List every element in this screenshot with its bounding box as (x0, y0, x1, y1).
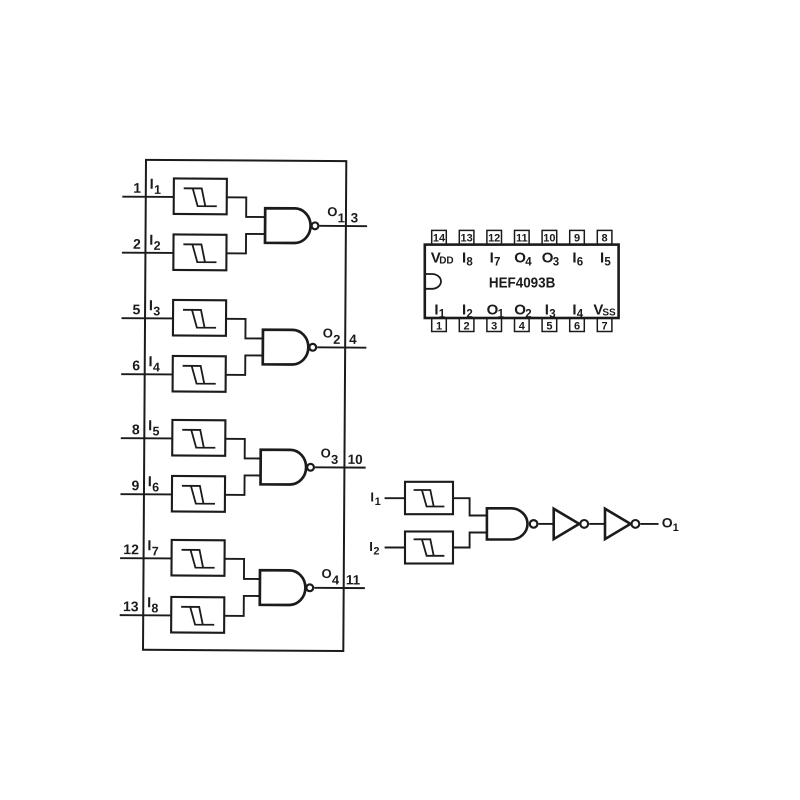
svg-text:8: 8 (466, 256, 473, 268)
wire output O2 (317, 346, 366, 348)
svg-text:5: 5 (133, 301, 141, 317)
schmitt trigger block 8 (171, 597, 224, 633)
IC boundary box (143, 160, 346, 651)
svg-text:4: 4 (519, 320, 526, 332)
pin 2 lead (459, 318, 474, 332)
svg-text:8: 8 (132, 421, 140, 437)
svg-text:SS: SS (602, 307, 616, 318)
pin 8 lead (597, 230, 612, 244)
pin 14 lead (432, 230, 447, 244)
svg-text:1: 1 (436, 320, 442, 332)
schmitt trigger block 6 (172, 476, 225, 512)
svg-text:11: 11 (516, 232, 528, 244)
wire input pin 1 (122, 196, 173, 198)
pin 11 lead (515, 230, 530, 244)
pin 3 lead (487, 318, 502, 332)
svg-text:2: 2 (466, 308, 472, 320)
wire output O1 (320, 225, 368, 227)
svg-text:6: 6 (132, 357, 140, 373)
wire input pin 6 (121, 373, 172, 375)
svg-text:6: 6 (152, 480, 159, 494)
svg-text:3: 3 (491, 320, 497, 332)
svg-text:8: 8 (151, 601, 158, 615)
wire input pin 9 (120, 493, 171, 495)
svg-text:10: 10 (543, 232, 555, 244)
svg-text:12: 12 (123, 541, 139, 557)
svg-text:1: 1 (133, 180, 141, 196)
schmitt trigger block 1 (174, 178, 227, 214)
pin 6 lead (570, 318, 585, 332)
pin 4 lead (515, 318, 530, 332)
pin 5 lead (542, 318, 557, 332)
schmitt trigger block B (405, 532, 453, 564)
svg-text:5: 5 (153, 424, 160, 438)
wire (589, 523, 605, 525)
svg-text:10: 10 (348, 452, 363, 467)
svg-text:5: 5 (546, 320, 552, 332)
svg-text:8: 8 (602, 232, 608, 244)
NAND gate U1 (487, 508, 528, 539)
svg-text:O: O (327, 204, 337, 219)
inversion bubble (307, 464, 314, 471)
svg-text:2: 2 (154, 239, 161, 253)
svg-text:2: 2 (525, 308, 531, 320)
DIP-14 package body (425, 245, 619, 318)
schmitt trigger block 2 (173, 234, 226, 270)
wire input I1 (385, 497, 405, 499)
inversion bubble (312, 222, 319, 229)
svg-text:14: 14 (433, 232, 446, 244)
svg-text:O: O (662, 515, 673, 531)
svg-text:I: I (369, 539, 373, 554)
svg-text:4: 4 (349, 332, 357, 347)
svg-text:11: 11 (346, 572, 361, 587)
pin 7 lead (597, 318, 612, 332)
svg-text:4: 4 (153, 360, 160, 374)
svg-text:1: 1 (498, 308, 505, 320)
svg-text:4: 4 (577, 308, 584, 320)
inverter buffer 2 (605, 509, 631, 539)
svg-text:9: 9 (131, 477, 139, 493)
svg-text:4: 4 (332, 572, 340, 587)
wire input I2 (385, 547, 405, 549)
svg-text:3: 3 (553, 256, 559, 268)
wire input pin 8 (121, 437, 172, 439)
svg-text:7: 7 (602, 320, 608, 332)
svg-text:2: 2 (373, 546, 379, 558)
svg-text:1: 1 (154, 183, 161, 197)
svg-text:1: 1 (338, 210, 345, 225)
svg-text:3: 3 (351, 210, 359, 225)
wire (226, 234, 265, 254)
svg-text:DD: DD (439, 255, 453, 266)
svg-text:HEF4093B: HEF4093B (489, 274, 555, 291)
svg-text:9: 9 (574, 232, 580, 244)
svg-text:12: 12 (488, 232, 500, 244)
schmitt trigger block 4 (173, 356, 226, 392)
wire input pin 12 (120, 557, 171, 559)
pin 12 lead (487, 230, 502, 244)
wire (226, 319, 263, 339)
wire output O3 (315, 466, 366, 468)
pin 1 lead (432, 318, 447, 332)
wire (227, 197, 266, 217)
svg-text:1: 1 (375, 496, 381, 508)
wire (453, 498, 487, 515)
NAND gate G2 (263, 330, 309, 365)
svg-text:3: 3 (153, 304, 160, 318)
inversion bubble (530, 520, 538, 528)
svg-text:7: 7 (494, 256, 500, 268)
svg-text:4: 4 (525, 256, 532, 268)
NAND gate G4 (260, 570, 306, 605)
schmitt trigger block 7 (171, 540, 224, 576)
wire (226, 355, 263, 375)
wire (539, 523, 554, 525)
svg-text:6: 6 (574, 320, 580, 332)
wire output O4 (314, 587, 365, 589)
svg-text:2: 2 (333, 332, 340, 347)
inversion bubble (580, 520, 588, 528)
schmitt trigger block A (405, 482, 453, 514)
schmitt trigger block 3 (173, 300, 226, 336)
svg-text:13: 13 (123, 598, 139, 614)
svg-text:13: 13 (460, 232, 472, 244)
svg-text:1: 1 (439, 308, 446, 320)
inversion bubble (306, 584, 313, 591)
wire (225, 439, 261, 459)
svg-text:1: 1 (673, 522, 679, 534)
wire output (640, 523, 658, 525)
pin 1 index notch (426, 274, 441, 289)
wire input pin 13 (120, 614, 171, 616)
NAND gate G3 (261, 450, 307, 485)
svg-text:O: O (321, 446, 331, 461)
pin 10 lead (542, 230, 557, 244)
svg-text:2: 2 (464, 320, 470, 332)
wire (225, 475, 261, 495)
inverter buffer 1 (554, 509, 580, 539)
inversion bubble (632, 520, 640, 528)
schmitt trigger block 5 (172, 420, 225, 456)
wire input pin 2 (122, 252, 173, 254)
NAND gate G1 (265, 208, 311, 243)
svg-text:O: O (322, 566, 332, 581)
pin 13 lead (459, 230, 474, 244)
svg-text:7: 7 (152, 544, 159, 558)
svg-text:O: O (323, 326, 333, 341)
svg-text:3: 3 (549, 308, 555, 320)
svg-text:6: 6 (577, 256, 583, 268)
wire input pin 5 (122, 317, 173, 319)
pin 9 lead (570, 230, 585, 244)
wire (453, 533, 487, 548)
svg-text:2: 2 (133, 236, 141, 252)
svg-text:3: 3 (331, 452, 338, 467)
inversion bubble (309, 344, 316, 351)
wire (224, 596, 260, 616)
svg-text:I: I (370, 489, 374, 504)
wire (224, 559, 260, 579)
svg-text:5: 5 (604, 256, 611, 268)
